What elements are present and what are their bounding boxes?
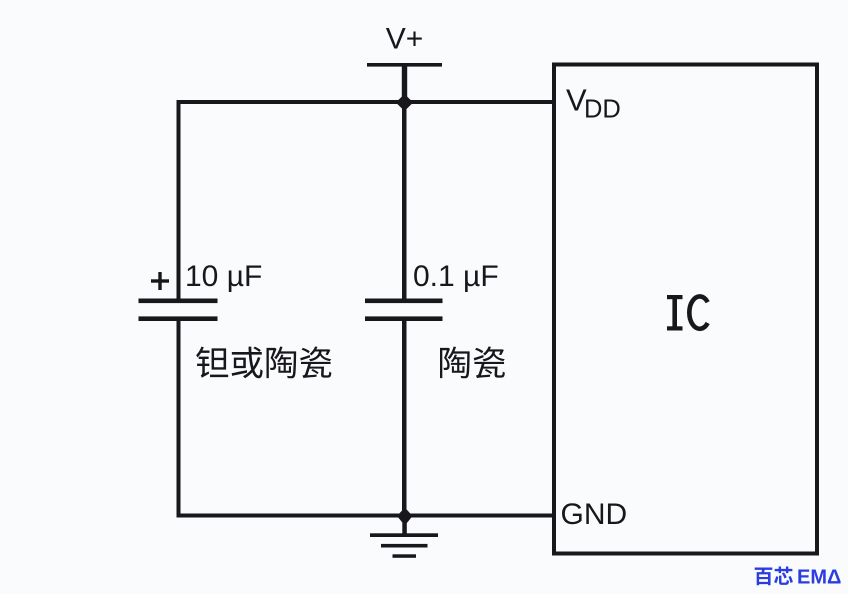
IC name label IC [667,295,708,331]
C1 type label (tantalum or ceramic) [196,346,331,378]
svg-text:10 µF: 10 µF [185,260,262,293]
capacitor C2 (0.1 uF ceramic): plates [365,299,443,322]
wire: middle vertical, V+ junction down to C2 top plate [402,102,407,300]
svg-text:0.1 µF: 0.1 µF [413,260,499,293]
wire: left vertical, top rail down to C1 top plate [177,100,181,300]
svg-text:EMΔ: EMΔ [797,567,841,589]
svg-text:DD: DD [584,95,621,123]
watermark logo text (baixin EMA) [755,566,842,588]
wire: bottom horizontal rail from C1 to GND pin [177,514,557,518]
capacitor C1 (10 uF tantalum/ceramic): plates [139,299,218,322]
junction node: ground rail / C2 tap [397,508,413,526]
wire: left vertical, C1 bottom plate down to bottom rail [177,318,181,518]
IC pin label VDD [566,83,621,124]
svg-text:V+: V+ [386,23,424,56]
IC U1 body [554,65,817,554]
C1 polarity plus sign [151,272,169,290]
junction node: V+ rail / C2 tap [396,94,413,111]
power symbol V+ (bar and stem) [367,63,442,104]
ground symbol [370,517,438,558]
C2 type label (ceramic) [440,346,505,378]
wire: middle vertical, C2 bottom plate down to ground junction [402,318,407,518]
wire: top horizontal rail from C1 to VDD pin [177,100,557,104]
svg-text:GND: GND [561,498,628,531]
